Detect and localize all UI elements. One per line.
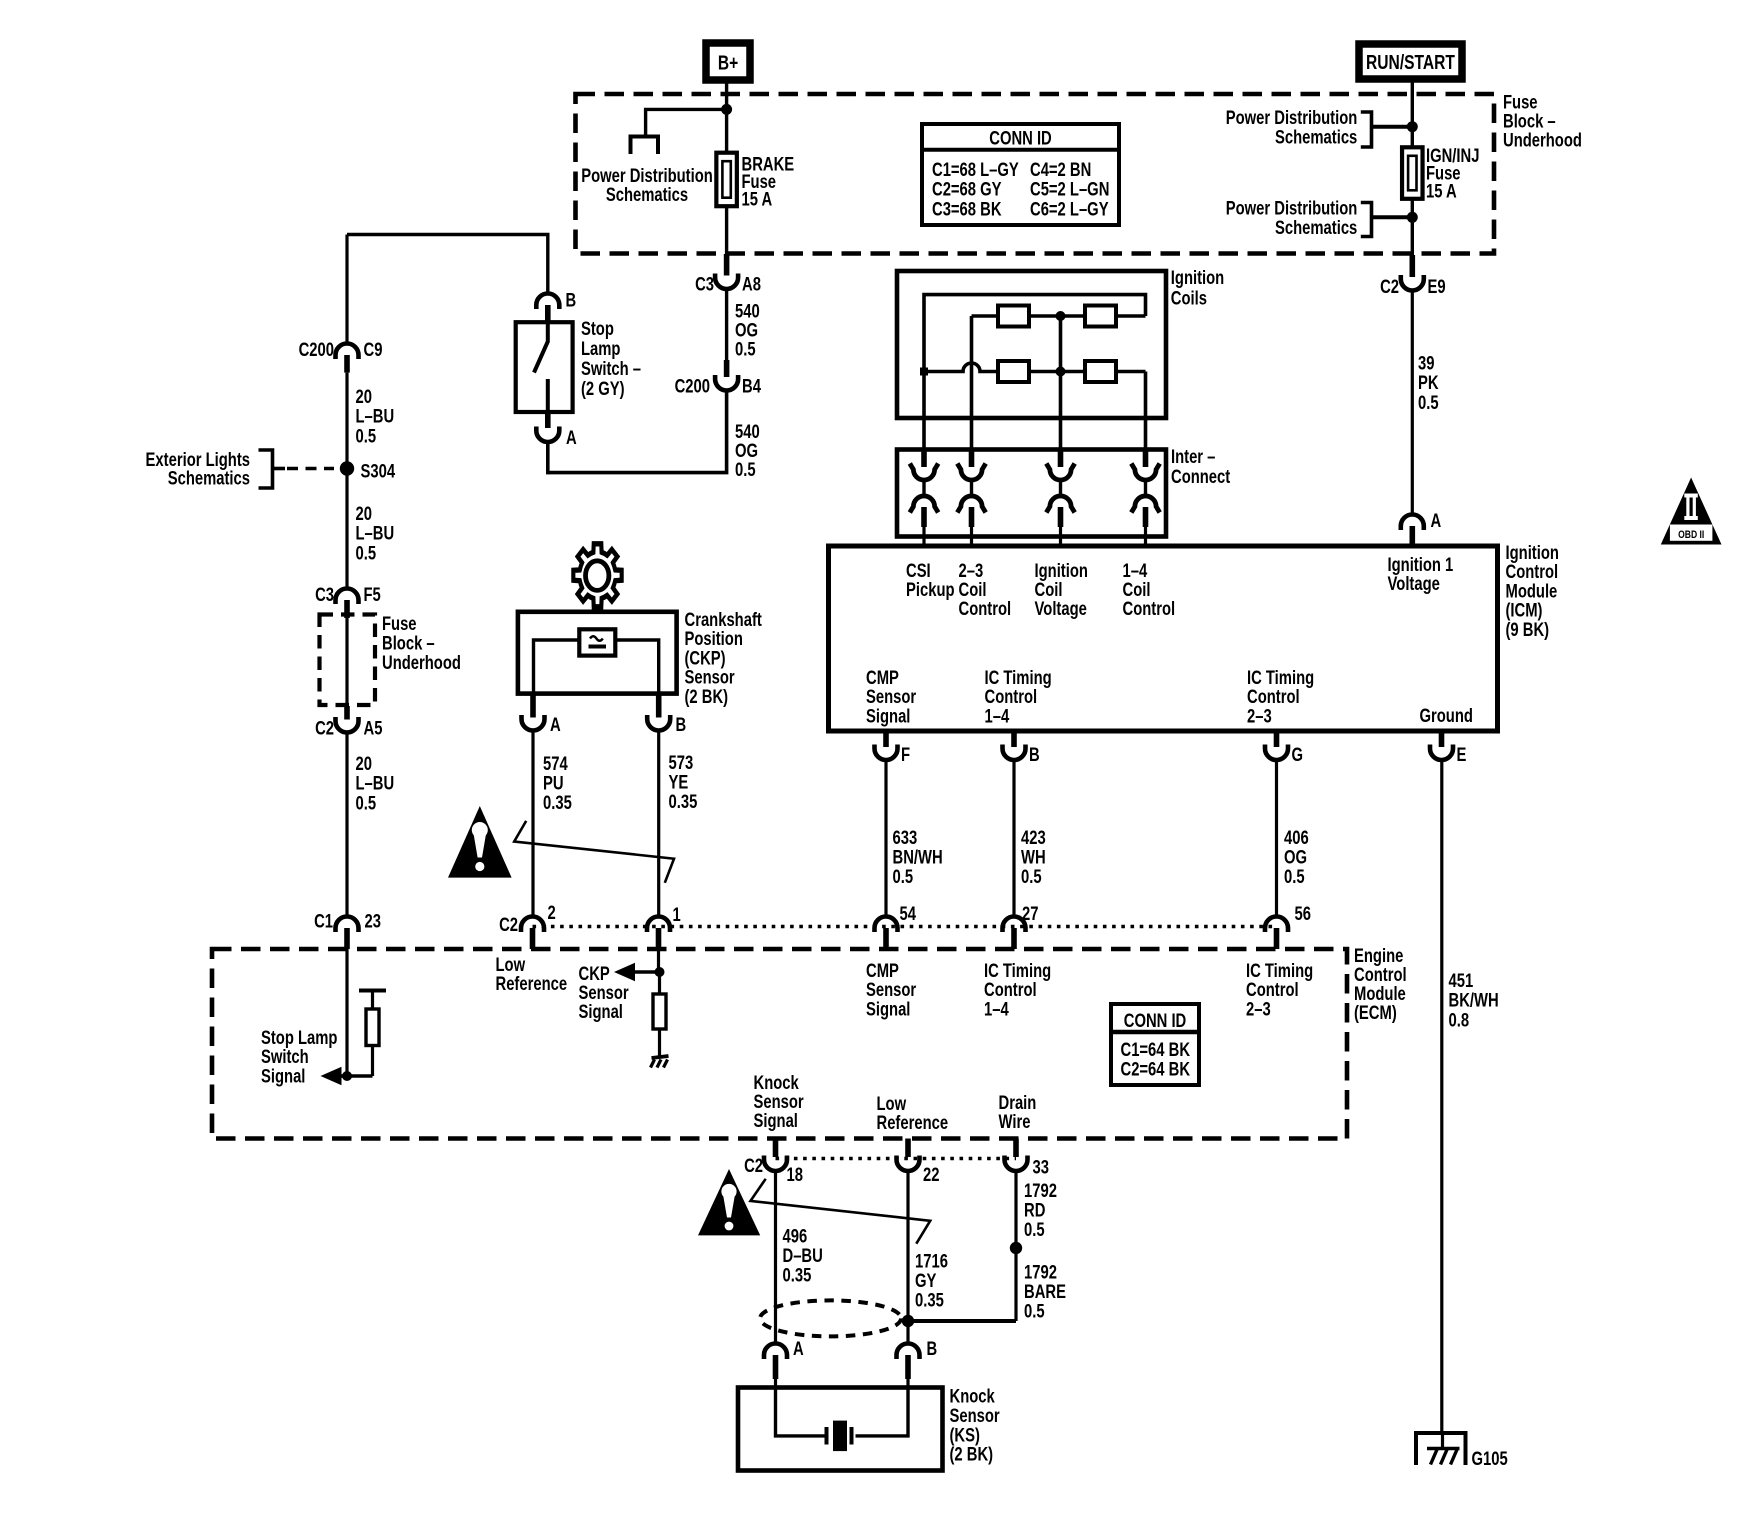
coil primary (top left) (998, 306, 1029, 327)
label wire 20 L-BU 0.5 (first) (356, 386, 395, 447)
ckp inner wires (534, 640, 659, 694)
coil drop coil voltage (1059, 316, 1063, 450)
svg-text:0.35: 0.35 (783, 1265, 812, 1286)
engine control module dashed box (212, 949, 1347, 1139)
svg-text:1716: 1716 (915, 1251, 948, 1272)
bracket power distribution schematics (lower right) (1361, 203, 1413, 237)
svg-text:A: A (566, 427, 577, 448)
svg-text:E: E (1457, 744, 1467, 765)
interconnect pair 2 (957, 451, 985, 544)
label wire 406 OG 0.5 (1284, 827, 1309, 887)
ICM pin B (1003, 733, 1040, 765)
svg-text:0.8: 0.8 (1449, 1010, 1470, 1031)
label Drain Wire (ECM) (999, 1092, 1037, 1132)
svg-text:Control: Control (1123, 598, 1176, 619)
svg-text:Voltage: Voltage (1035, 598, 1087, 619)
svg-text:2: 2 (548, 902, 556, 923)
label CMP Sensor Signal (ECM) (866, 960, 917, 1020)
connector C2 pin 2 (499, 902, 556, 949)
svg-text:20: 20 (356, 386, 372, 407)
gear icon (crankshaft) (573, 544, 621, 607)
svg-text:Ground: Ground (1420, 705, 1473, 726)
svg-text:Switch –: Switch – (581, 358, 641, 379)
svg-text:C2: C2 (1380, 276, 1399, 297)
svg-text:1792: 1792 (1024, 1180, 1057, 1201)
svg-text:Signal: Signal (866, 706, 910, 727)
svg-text:C1=64 BK: C1=64 BK (1121, 1039, 1191, 1060)
coil 2-3 secondary (bottom left) (998, 361, 1029, 382)
svg-text:CMP: CMP (866, 667, 899, 688)
svg-text:0.5: 0.5 (356, 543, 377, 564)
connector pin 1 (647, 904, 681, 949)
label Ignition 1 Voltage (1388, 554, 1454, 594)
svg-text:423: 423 (1021, 827, 1046, 848)
svg-text:406: 406 (1284, 827, 1309, 848)
switch lower contact (546, 379, 550, 412)
svg-text:C2: C2 (499, 914, 518, 935)
wire IGN fuse to C2/E9 (1411, 199, 1414, 277)
svg-text:Connect: Connect (1171, 466, 1230, 487)
stub A into ICM (1410, 526, 1416, 546)
connector pin 27 (1003, 903, 1039, 949)
stub ckp pin B (656, 694, 662, 718)
wire resistor to junction (371, 1046, 374, 1077)
fuse IGN/INJ 15 A (1402, 147, 1423, 199)
wire stop lamp top run (347, 235, 548, 293)
svg-text:C1=68 L–GY: C1=68 L–GY (932, 159, 1019, 180)
svg-text:IC Timing: IC Timing (1247, 667, 1314, 688)
svg-text:B4: B4 (742, 376, 761, 397)
label IGN/INJ Fuse 15 A (1426, 145, 1479, 202)
label BRAKE Fuse 15 A (742, 154, 795, 210)
svg-text:496: 496 (783, 1226, 808, 1247)
crankshaft position sensor box (518, 612, 677, 694)
stub C1/23 into ECM (344, 928, 350, 949)
connector C1/23 (314, 911, 381, 932)
resistor stop lamp pullup (366, 1009, 379, 1046)
label Power Distribution Schematics (left) (581, 165, 713, 205)
junction top row (1056, 311, 1066, 321)
svg-text:Module: Module (1506, 581, 1558, 602)
label wire 1716 GY 0.35 (915, 1251, 948, 1311)
wire 406 OG (1275, 760, 1278, 915)
svg-text:1792: 1792 (1024, 1262, 1057, 1283)
svg-text:0.5: 0.5 (893, 866, 914, 887)
svg-text:Ignition: Ignition (1171, 267, 1224, 288)
svg-text:F5: F5 (364, 584, 381, 605)
svg-text:0.5: 0.5 (1024, 1301, 1045, 1322)
knock sensor internal wires (776, 1388, 909, 1436)
svg-text:C5=2 L–GN: C5=2 L–GN (1030, 179, 1109, 200)
connector C3/A8 (695, 274, 761, 295)
svg-text:15 A: 15 A (1426, 181, 1457, 202)
callout line from triangle to wires (514, 821, 674, 883)
svg-text:BK/WH: BK/WH (1449, 990, 1499, 1011)
wire between bottom coils (1029, 370, 1085, 374)
svg-text:C200: C200 (299, 339, 334, 360)
stub A below switch (545, 412, 551, 428)
pullup T-bar (359, 991, 386, 1010)
connector C2/A5 (315, 717, 382, 739)
connector C200/C9 (299, 339, 383, 360)
label wire 633 BN/WH 0.5 (893, 827, 943, 887)
svg-text:PU: PU (543, 773, 564, 794)
label 2-3 Coil Control (959, 560, 1012, 619)
svg-text:1–4: 1–4 (984, 999, 1009, 1020)
label Fuse Block - Underhood (small box) (382, 613, 461, 673)
label Ignition Control Module (ICM) (9 BK) (1506, 542, 1559, 640)
label wire 540 OG 0.5 (lower) (735, 421, 760, 480)
svg-text:BN/WH: BN/WH (893, 847, 943, 868)
wire to ckp resistor (658, 972, 661, 994)
wire 633 BN/WH (884, 760, 887, 915)
svg-text:Reference: Reference (496, 973, 568, 994)
svg-text:451: 451 (1449, 970, 1474, 991)
connector B at CKP (647, 714, 686, 735)
svg-text:39: 39 (1418, 353, 1434, 374)
label Knock Sensor (KS) (2 BK) (950, 1386, 1001, 1465)
coil drop 2-3 control (970, 316, 974, 450)
svg-text:(2 GY): (2 GY) (581, 378, 625, 399)
label 1-4 Coil Control (1123, 560, 1176, 619)
wire top row left (972, 314, 999, 318)
connector pin 56 (1265, 903, 1311, 949)
connector C2 pin 18 (744, 1139, 803, 1186)
svg-text:CMP: CMP (866, 960, 899, 981)
svg-text:Knock: Knock (950, 1386, 996, 1407)
svg-text:C3=68 BK: C3=68 BK (932, 199, 1002, 220)
connector A at stop lamp switch (536, 427, 576, 449)
ckp sensor element (579, 629, 615, 655)
svg-text:RD: RD (1024, 1200, 1045, 1221)
svg-text:B: B (1029, 744, 1040, 765)
svg-text:2–3: 2–3 (1247, 706, 1272, 727)
svg-text:G105: G105 (1472, 1448, 1508, 1469)
svg-text:BARE: BARE (1024, 1281, 1066, 1302)
connector C2/E9 (1380, 275, 1446, 297)
svg-text:Underhood: Underhood (382, 652, 461, 673)
wire 574 PU (531, 731, 534, 916)
svg-text:F: F (901, 744, 910, 765)
svg-text:Sensor: Sensor (685, 667, 736, 688)
resistor ckp signal (653, 994, 666, 1029)
label IC Timing Control 2-3 (ICM) (1247, 667, 1314, 727)
coil primary (top right) (1085, 306, 1116, 327)
svg-text:(2 BK): (2 BK) (685, 686, 729, 707)
warning triangle (CKP note) (448, 806, 512, 878)
label wire 1792 RD 0.5 (1024, 1180, 1057, 1240)
svg-text:C9: C9 (364, 339, 383, 360)
wire C3/A8 to C200/B4 (725, 289, 728, 377)
svg-text:0.35: 0.35 (669, 791, 698, 812)
splice on drain wire (1010, 1242, 1022, 1254)
OBD II symbol (1661, 478, 1722, 545)
chassis ground (ckp signal) (651, 1056, 669, 1068)
svg-text:B: B (927, 1338, 938, 1359)
wire 496 D-BU (774, 1171, 777, 1342)
label Power Distribution Schematics (lower right) (1226, 198, 1358, 239)
wire left column upper (345, 235, 348, 344)
svg-text:Block –: Block – (382, 633, 435, 654)
ignition coils box (897, 271, 1166, 418)
power symbol B+ (706, 43, 750, 80)
label Crankshaft Position (CKP) Sensor (2 BK) (685, 609, 763, 707)
svg-text:0.5: 0.5 (1021, 866, 1042, 887)
connector B at knock sensor (897, 1338, 938, 1379)
interconnect pair 3 (1046, 451, 1074, 544)
svg-text:C2=64 BK: C2=64 BK (1121, 1059, 1191, 1080)
junction at IGN wire (upper) (1407, 121, 1418, 132)
svg-text:L–BU: L–BU (356, 406, 395, 427)
svg-text:(KS): (KS) (950, 1425, 980, 1446)
svg-text:Ignition: Ignition (1506, 542, 1559, 563)
svg-text:A: A (793, 1338, 804, 1359)
svg-text:Schematics: Schematics (1275, 217, 1357, 238)
svg-text:(9 BK): (9 BK) (1506, 619, 1550, 640)
label wire 1792 BARE 0.5 (1024, 1262, 1066, 1322)
svg-text:2–3: 2–3 (1246, 999, 1271, 1020)
label Fuse Block - Underhood (top right) (1503, 92, 1582, 151)
svg-text:573: 573 (669, 752, 694, 773)
label wire 20 L-BU 0.5 (second) (356, 503, 395, 564)
svg-text:Pickup: Pickup (906, 579, 955, 600)
stop lamp switch box (516, 322, 573, 412)
label Ignition Coil Voltage (1035, 560, 1088, 619)
svg-text:18: 18 (787, 1164, 803, 1185)
wire into knock box A (774, 1379, 777, 1388)
svg-text:Inter –: Inter – (1171, 446, 1215, 467)
svg-text:OBD II: OBD II (1678, 529, 1704, 541)
wire C2/E9 to ICM pin A (1411, 291, 1414, 514)
connector C200/B4 (675, 375, 762, 397)
label Ground (ICM) (1420, 705, 1473, 726)
connector pin 54 (875, 903, 917, 949)
svg-text:Voltage: Voltage (1388, 573, 1440, 594)
wire S304 to C3/F5 (345, 469, 348, 589)
svg-text:B+: B+ (718, 52, 738, 74)
wire 451 BK/WH (ground) (1440, 760, 1443, 1433)
wire BRAKE fuse to C3/A8 (725, 206, 728, 275)
svg-text:0.5: 0.5 (1024, 1219, 1045, 1240)
interconnect pair 4 (1131, 451, 1159, 544)
svg-text:15 A: 15 A (742, 189, 773, 210)
conn id table (fuse block) (922, 124, 1119, 225)
label wire 39 PK 0.5 (1418, 353, 1439, 414)
wire 573 YE (657, 731, 660, 916)
interconnect pair 1 (910, 451, 938, 544)
label CSI Pickup (906, 560, 955, 600)
inter-connect box (897, 450, 1166, 537)
svg-text:GY: GY (915, 1270, 937, 1291)
svg-text:C2: C2 (315, 718, 334, 739)
wire through fuse block box (345, 618, 348, 720)
connector C3/F5 (315, 584, 381, 605)
svg-text:C2=68 GY: C2=68 GY (932, 179, 1002, 200)
ground G105 (1416, 1433, 1508, 1469)
svg-text:1–4: 1–4 (985, 706, 1010, 727)
svg-text:Signal: Signal (754, 1110, 798, 1131)
svg-text:IC Timing: IC Timing (985, 667, 1052, 688)
ICM pin E (1430, 733, 1466, 765)
svg-text:WH: WH (1021, 847, 1046, 868)
coil drop CSI (922, 372, 926, 451)
svg-text:0.5: 0.5 (1284, 866, 1305, 887)
svg-text:C3: C3 (315, 584, 334, 605)
wire C9 to S304 (345, 373, 348, 467)
wire branch to power distribution bracket (646, 109, 727, 136)
label Power Distribution Schematics (upper right) (1226, 107, 1358, 148)
svg-text:54: 54 (900, 903, 917, 924)
conn id table (ECM) (1111, 1004, 1199, 1085)
svg-text:0.35: 0.35 (915, 1290, 944, 1311)
label wire 20 L-BU 0.5 (third) (356, 753, 395, 814)
svg-text:CONN ID: CONN ID (1124, 1010, 1186, 1031)
label Inter-Connect (1171, 446, 1230, 487)
label CMP Sensor Signal (ICM) (866, 667, 917, 727)
label Stop Lamp Switch Signal (261, 1027, 337, 1087)
coils inner top loop (924, 295, 1146, 372)
square junction left (920, 368, 928, 376)
continuation bracket (power distribution) (631, 137, 659, 155)
label wire 496 D-BU 0.35 (783, 1226, 823, 1286)
connector pin 22 (897, 1139, 940, 1186)
svg-text:G: G (1292, 744, 1304, 765)
svg-text:E9: E9 (1428, 276, 1446, 297)
stub below C200/C9 (344, 355, 350, 373)
svg-text:L–BU: L–BU (356, 773, 395, 794)
drain wire to shield (908, 1319, 1016, 1323)
label Engine Control Module (ECM) (1354, 945, 1407, 1023)
svg-text:Underhood: Underhood (1503, 130, 1582, 151)
bracket exterior lights schematics (259, 450, 335, 488)
svg-text:Wire: Wire (999, 1111, 1031, 1132)
junction at IGN wire (lower) (1407, 212, 1418, 223)
bracket power distribution schematics (upper right) (1361, 112, 1413, 147)
svg-text:Signal: Signal (579, 1001, 623, 1022)
svg-text:Fuse: Fuse (382, 613, 417, 634)
svg-text:20: 20 (356, 753, 372, 774)
svg-text:PK: PK (1418, 372, 1439, 393)
svg-text:0.5: 0.5 (356, 793, 377, 814)
svg-text:Reference: Reference (877, 1112, 949, 1133)
ICM pin G (1265, 733, 1303, 765)
splice S304 (340, 461, 396, 482)
wire 1792 RD (1014, 1171, 1017, 1321)
svg-text:0.5: 0.5 (1418, 392, 1439, 413)
svg-text:574: 574 (543, 753, 568, 774)
connector pin 33 (1005, 1139, 1049, 1178)
svg-text:Control: Control (1506, 561, 1559, 582)
arrow stop lamp switch signal (321, 1067, 373, 1085)
wire A5 to C1/23 (345, 733, 348, 918)
svg-text:A8: A8 (742, 274, 761, 295)
svg-text:Sensor: Sensor (866, 686, 917, 707)
svg-text:A: A (1431, 510, 1442, 531)
svg-text:Position: Position (685, 628, 743, 649)
connector B at stop lamp switch (536, 290, 576, 311)
svg-text:Stop: Stop (581, 318, 614, 339)
svg-text:Coils: Coils (1171, 288, 1207, 309)
arrow ckp sensor signal (614, 963, 660, 981)
svg-text:C200: C200 (675, 376, 710, 397)
svg-text:Signal: Signal (261, 1066, 305, 1087)
label Knock Sensor Signal (ECM) (754, 1072, 805, 1131)
piezo element (827, 1421, 852, 1452)
svg-text:Sensor: Sensor (950, 1405, 1001, 1426)
svg-text:CONN ID: CONN ID (989, 128, 1051, 149)
wire B+ to BRAKE fuse (725, 81, 728, 154)
knock sensor box (738, 1388, 943, 1471)
svg-text:C2: C2 (744, 1155, 763, 1176)
svg-text:Lamp: Lamp (581, 338, 620, 359)
svg-text:Sensor: Sensor (866, 979, 917, 1000)
svg-text:Crankshaft: Crankshaft (685, 609, 763, 630)
wire into knock box B (906, 1379, 909, 1388)
svg-text:Control: Control (984, 979, 1037, 1000)
svg-text:(CKP): (CKP) (685, 648, 726, 669)
callout line (knock note) (751, 1179, 931, 1244)
wire between top coils (1029, 314, 1085, 318)
svg-text:D–BU: D–BU (783, 1245, 823, 1266)
svg-text:Signal: Signal (866, 999, 910, 1020)
fuse BRAKE 15 A (716, 153, 737, 207)
svg-text:0.5: 0.5 (356, 426, 377, 447)
wire resistor to ground (658, 1029, 661, 1057)
svg-text:A5: A5 (364, 718, 383, 739)
svg-text:B: B (676, 714, 687, 735)
dotted harness line (ECM connectors) (533, 925, 1277, 929)
label Low Reference (ECM) (496, 954, 568, 994)
junction bottom row (1056, 367, 1066, 377)
svg-text:22: 22 (923, 1164, 939, 1185)
junction shield (902, 1315, 914, 1327)
svg-text:(ECM): (ECM) (1354, 1002, 1397, 1023)
wire A down to corner (546, 442, 550, 474)
svg-text:C3: C3 (695, 274, 714, 295)
power symbol RUN/START (1359, 44, 1462, 79)
svg-text:IC Timing: IC Timing (984, 960, 1051, 981)
wire RUN/START to IGN fuse (1411, 80, 1414, 148)
connector A at ICM (1401, 510, 1441, 531)
svg-text:(ICM): (ICM) (1506, 600, 1543, 621)
shield ellipse (760, 1300, 901, 1336)
coil feed bottom row with hop (924, 363, 998, 372)
stub ckp pin A (530, 694, 536, 718)
connector A at knock sensor (764, 1338, 804, 1379)
svg-text:33: 33 (1033, 1157, 1049, 1178)
label IC Timing Control 2-3 (ECM) (1246, 960, 1313, 1020)
svg-text:23: 23 (365, 911, 381, 932)
wire C200/B4 to stop lamp switch A (548, 391, 727, 473)
svg-text:Schematics: Schematics (168, 468, 250, 489)
svg-text:Power Distribution: Power Distribution (1226, 107, 1358, 128)
svg-text:Stop Lamp: Stop Lamp (261, 1027, 337, 1048)
connector A at CKP (522, 714, 561, 735)
svg-text:Power Distribution: Power Distribution (1226, 198, 1358, 219)
svg-text:(2 BK): (2 BK) (950, 1444, 994, 1465)
svg-text:RUN/START: RUN/START (1366, 51, 1455, 73)
label Exterior Lights Schematics (146, 449, 250, 489)
label Low Reference (knock) (877, 1093, 949, 1133)
label IC Timing Control 1-4 (ECM) (984, 960, 1051, 1020)
label wire 573 YE 0.35 (669, 752, 698, 812)
svg-text:0.5: 0.5 (735, 459, 756, 480)
svg-text:Switch: Switch (261, 1046, 309, 1067)
label wire 574 PU 0.35 (543, 753, 572, 813)
label IC Timing Control 1-4 (ICM) (985, 667, 1052, 727)
svg-text:633: 633 (893, 827, 918, 848)
junction stop lamp signal (342, 1071, 352, 1081)
